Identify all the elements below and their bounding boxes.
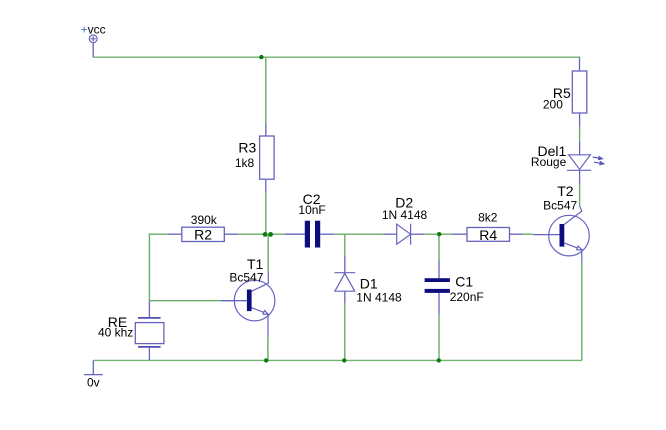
svg-text:T2: T2 (557, 183, 574, 199)
resistor R5 (572, 71, 587, 113)
C1 lead bottom (438, 293, 440, 314)
resistor R4 (467, 228, 510, 242)
svg-text:C1: C1 (455, 274, 473, 290)
svg-text:T1: T1 (247, 256, 264, 272)
svg-text:0v: 0v (87, 375, 100, 389)
resistor R2 (182, 227, 225, 241)
svg-text:R4: R4 (479, 227, 497, 243)
power symbol +vcc (89, 35, 97, 43)
capacitor C2 (305, 221, 320, 248)
vcc lead (92, 43, 94, 58)
D1 lead bottom (344, 291, 346, 303)
R4 lead left (452, 233, 467, 235)
C2 lead left (285, 233, 305, 235)
RE lead bottom (148, 348, 150, 360)
wire T2 emitter to rail (581, 262, 583, 360)
R5 lead top (579, 57, 581, 71)
svg-text:1N 4148: 1N 4148 (356, 290, 402, 304)
wire T1 collector (267, 234, 269, 272)
junction node D1 rail (342, 358, 346, 362)
D2 lead left (384, 233, 397, 235)
R2 lead left (168, 233, 182, 235)
svg-text:Rouge: Rouge (531, 155, 567, 169)
svg-text:R2: R2 (194, 227, 212, 243)
svg-text:200: 200 (543, 97, 563, 111)
svg-text:1N 4148: 1N 4148 (382, 208, 428, 222)
ground symbol 0v (84, 374, 103, 376)
junction node T1 collector (268, 232, 273, 237)
junction node R3 base (263, 232, 268, 237)
junction node D2 R4 C1 (437, 232, 441, 236)
wire top rail vcc (93, 56, 580, 58)
RE lead top (148, 302, 150, 318)
diode D1 (334, 273, 355, 292)
R4 lead right (510, 233, 523, 235)
diode D2 (397, 224, 411, 245)
svg-text:8k2: 8k2 (478, 211, 498, 225)
wire LED to T2 collector (579, 184, 581, 206)
wire D2 to R4 (425, 233, 452, 235)
D1 lead top (344, 256, 346, 273)
R5 lead bottom (579, 113, 581, 127)
wire R2 left to RE (149, 234, 167, 301)
svg-text:D1: D1 (360, 276, 378, 292)
T2 base lead (533, 234, 559, 236)
wire R2 right (238, 233, 265, 235)
Del1 lead top (579, 141, 581, 155)
wire C2 to D2 (334, 233, 384, 235)
resistor R3 (260, 136, 275, 179)
svg-text:10nF: 10nF (298, 203, 325, 217)
Del1 light arrows (593, 157, 604, 165)
R3 lead top (265, 124, 267, 137)
junction node T1 emitter rail (264, 358, 268, 362)
svg-text:Bc547: Bc547 (543, 199, 577, 213)
C1 lead top (438, 260, 440, 278)
svg-text:Bc547: Bc547 (229, 271, 263, 285)
junction node C1 rail (437, 358, 441, 362)
wire bottom rail 0v (93, 359, 582, 361)
svg-text:R3: R3 (238, 140, 256, 156)
transistor T1 (234, 272, 275, 337)
junction node on top rail (259, 55, 263, 59)
ultrasonic receiver RE (135, 318, 164, 347)
svg-text:40 khz: 40 khz (98, 326, 133, 340)
LED Del1 (567, 155, 591, 171)
D2 lead right (411, 233, 425, 235)
wire D1 bottom (344, 303, 346, 360)
wire T1 base (149, 300, 220, 302)
svg-text:390k: 390k (191, 213, 218, 227)
0v lead (92, 360, 94, 374)
wire C1 top (438, 234, 440, 260)
wire R5 to LED (579, 127, 581, 141)
wire R4 right (522, 233, 533, 235)
Del1 lead bottom (579, 170, 581, 183)
capacitor C1 (425, 278, 450, 293)
C2 lead right (320, 233, 334, 235)
wire R3 bottom (265, 192, 267, 234)
wire D1 top (344, 234, 346, 256)
svg-text:220nF: 220nF (450, 290, 484, 304)
wire C1 bottom (438, 314, 440, 361)
wire R3 top (265, 57, 267, 123)
transistor T2 (549, 206, 590, 262)
wire node to C2 (271, 233, 286, 235)
R3 lead bottom (265, 179, 267, 192)
T1 base lead (221, 300, 247, 302)
svg-text:+vcc: +vcc (81, 22, 106, 36)
R2 lead right (224, 233, 238, 235)
svg-text:1k8: 1k8 (235, 156, 255, 170)
wire T1 emitter (267, 337, 269, 360)
